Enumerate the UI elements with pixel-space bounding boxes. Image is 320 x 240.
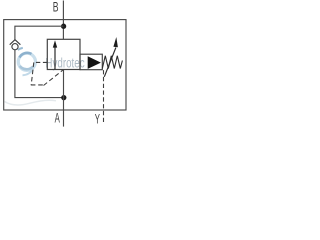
wire check valve to bottom	[15, 50, 64, 98]
port A line	[63, 70, 65, 127]
junction dot bottom	[61, 95, 66, 100]
svg-text:Hydrotec: Hydrotec	[45, 55, 84, 71]
pilot line dashed bottom horizontal	[31, 84, 43, 86]
spring	[102, 56, 122, 69]
adjustment arrow shaft	[104, 48, 116, 77]
svg-text:Y: Y	[95, 112, 100, 127]
wire top horizontal	[15, 26, 64, 40]
check valve ball	[12, 44, 18, 50]
flow arrow shaft	[54, 47, 56, 70]
drain line Y dashed	[103, 70, 105, 123]
pilot line dashed horizontal	[34, 61, 48, 63]
pilot line dashed diagonal	[44, 70, 64, 86]
check valve seat	[10, 40, 21, 45]
poppet triangle	[88, 56, 101, 69]
adjustment arrow head	[113, 37, 118, 47]
pilot line dashed vertical	[31, 62, 34, 85]
watermark swoosh	[5, 100, 57, 105]
valve boundary box	[4, 20, 126, 110]
watermark logo swirl	[18, 48, 36, 75]
port B line	[62, 1, 64, 40]
svg-text:B: B	[53, 0, 59, 15]
svg-text:A: A	[55, 111, 60, 126]
main valve square	[47, 39, 80, 69]
flow arrow head	[53, 40, 57, 47]
junction dot top	[61, 24, 66, 29]
spring chamber box	[80, 54, 102, 69]
